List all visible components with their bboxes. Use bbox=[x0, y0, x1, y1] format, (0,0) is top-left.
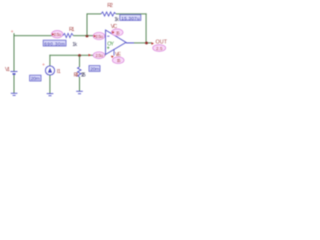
wire down right side to output node bbox=[146, 13, 147, 43]
wire R2 left lead bbox=[87, 13, 101, 14]
ground R3 bbox=[76, 91, 83, 93]
voltage oval VE 15 bbox=[111, 56, 124, 64]
OUT anchor arrow bbox=[151, 42, 154, 45]
value box B1 690.30m bbox=[43, 40, 66, 47]
junction node OUT bbox=[145, 42, 148, 45]
value box B2 15.307u bbox=[120, 15, 141, 22]
battery V1 bbox=[11, 72, 18, 75]
wire R1 right to junction bbox=[73, 35, 93, 36]
plus marker I1 bbox=[42, 63, 44, 65]
svg-text:20m: 20m bbox=[90, 67, 99, 73]
voltage oval P3 (non-inverting input) bbox=[93, 52, 105, 59]
wire output to node bbox=[134, 42, 152, 43]
wire R3 top lead bbox=[79, 56, 80, 68]
wire R2 right bbox=[116, 13, 147, 14]
junction node R3 top bbox=[78, 54, 81, 57]
svg-text:R3: R3 bbox=[74, 73, 79, 79]
ground I1 bbox=[47, 94, 54, 96]
current source I1 bbox=[45, 66, 54, 75]
voltage oval OUT 2.5 bbox=[153, 45, 166, 52]
VE pin stub bbox=[113, 50, 116, 56]
value box B3 20m bbox=[30, 75, 41, 82]
svg-text:690.30m: 690.30m bbox=[44, 41, 65, 47]
svg-text:I1: I1 bbox=[57, 69, 61, 75]
svg-text:15.307u: 15.307u bbox=[121, 16, 140, 22]
resistor R2 zigzag bbox=[101, 12, 116, 16]
ground V1 bbox=[11, 93, 18, 95]
voltage oval P1 on R1 left wire bbox=[52, 31, 63, 38]
wire V1 top vertical bbox=[14, 33, 15, 71]
plus marker bbox=[107, 47, 109, 49]
wire V1 bottom bbox=[14, 75, 15, 94]
svg-text:2.5: 2.5 bbox=[156, 46, 163, 51]
wire I1 bottom bbox=[49, 75, 50, 93]
svg-text:2.5u: 2.5u bbox=[95, 34, 103, 39]
svg-text:R2: R2 bbox=[107, 3, 113, 9]
value box B4 20m bbox=[89, 66, 100, 73]
svg-text:2.5u: 2.5u bbox=[95, 53, 103, 58]
svg-text:1k: 1k bbox=[72, 42, 77, 48]
op-amp output lead bbox=[126, 42, 134, 43]
voltage oval VC 15 bbox=[111, 29, 123, 36]
svg-text:V1: V1 bbox=[5, 67, 10, 73]
wire R3 bottom lead bbox=[79, 77, 80, 91]
svg-text:15: 15 bbox=[117, 58, 121, 63]
svg-text:15: 15 bbox=[116, 30, 120, 35]
op-amp U1 triangle bbox=[106, 30, 127, 55]
svg-text:1k: 1k bbox=[114, 17, 119, 23]
svg-text:20m: 20m bbox=[31, 76, 40, 82]
VC pin stub bbox=[112, 31, 115, 35]
resistor R3 zigzag bbox=[78, 67, 82, 77]
svg-text:R1: R1 bbox=[69, 27, 75, 33]
wire V1 top corner to R1 row bbox=[14, 35, 52, 36]
resistor R1 zigzag bbox=[63, 33, 73, 37]
svg-text:OY: OY bbox=[107, 41, 114, 47]
plus marker V1 bbox=[11, 30, 13, 32]
wire up from junction to R2 row bbox=[87, 13, 88, 35]
minus marker bbox=[107, 35, 109, 37]
voltage oval P2 (inverting input) bbox=[93, 32, 105, 39]
svg-text:2.5u: 2.5u bbox=[54, 32, 62, 37]
svg-text:125: 125 bbox=[81, 73, 86, 79]
junction node A bbox=[86, 35, 89, 38]
P3 anchor arrow bbox=[88, 54, 91, 57]
wire from I1 top corner to + input bbox=[49, 55, 50, 66]
